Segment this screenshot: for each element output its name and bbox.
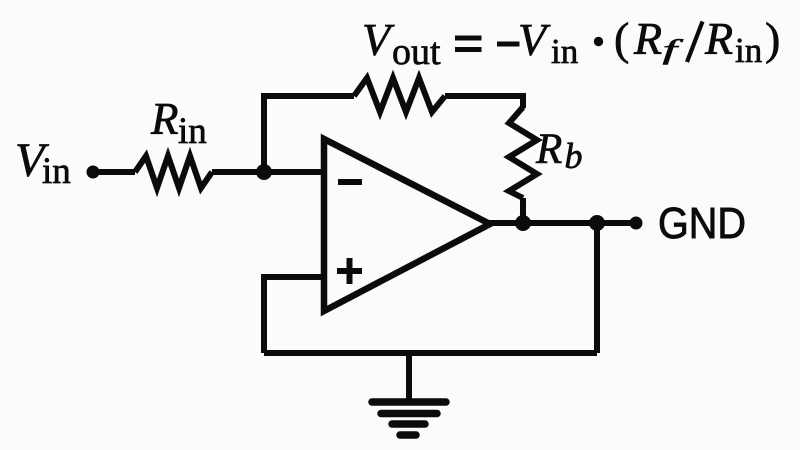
wire node B down [594,223,600,353]
op-amp U1 [324,139,490,311]
resistor R_in [135,156,212,188]
node input terminal [87,166,100,179]
wire R_b to output node [520,198,526,223]
wire feedback top left [261,93,354,99]
wire non-inverting input [264,277,324,353]
svg-text:in: in [735,31,762,70]
wire R_in to op-amp inverting input [212,169,324,175]
wire bottom rail [264,350,597,356]
wire output [487,220,636,226]
svg-text:V: V [518,14,551,65]
minus sign (inverting input) [338,179,362,185]
label R_in [150,94,207,152]
wire input to R_in [93,169,135,175]
svg-text:in: in [551,32,578,71]
svg-text:GND: GND [658,199,746,248]
wire feedback top right [445,93,523,99]
plus sign (non-inverting input) [337,268,362,274]
svg-text:(: ( [614,13,629,64]
node GND terminal [630,217,643,230]
node B junction [589,215,605,231]
svg-text:V: V [362,14,395,65]
svg-text:R: R [633,13,662,64]
label formula V_out = -V_in * (R_f / R_in) [362,13,780,73]
label R_b [535,126,583,176]
svg-text:in: in [42,151,71,192]
wire corner down to R_b [520,93,526,108]
svg-text:R: R [535,126,562,173]
svg-text:R: R [704,13,733,64]
svg-text:in: in [178,111,207,152]
svg-text:R: R [150,94,179,144]
node output [515,215,531,231]
resistor R_f (feedback) [354,78,445,112]
label V_in [15,134,71,192]
svg-text:b: b [565,136,583,176]
wire junction up to feedback [261,93,267,175]
resistor R_b [509,107,537,198]
node A junction [256,164,272,180]
svg-text:out: out [392,31,441,73]
svg-text:): ) [765,13,780,64]
wire ground stem [406,353,412,399]
ground [372,402,446,435]
